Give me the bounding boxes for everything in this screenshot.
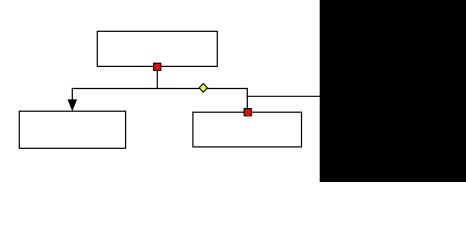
- wire: left branch drop: [71, 88, 73, 101]
- midpoint handle (yellow diamond) on bus: [199, 84, 207, 93]
- black panel (right side overlay): [320, 0, 466, 182]
- left process box: [19, 111, 125, 148]
- connection handle (red square) on right box: [244, 109, 251, 116]
- top process box: [97, 31, 217, 66]
- right process box: [193, 112, 302, 147]
- wire: branch toward black panel: [247, 95, 321, 97]
- wire: vertical from top box connector down to bus: [156, 67, 158, 89]
- wire: horizontal bus: [72, 88, 248, 90]
- arrowhead into left box: [68, 99, 78, 111]
- connection handle (red square) on top box: [154, 63, 161, 70]
- wire: right branch drop: [246, 88, 248, 112]
